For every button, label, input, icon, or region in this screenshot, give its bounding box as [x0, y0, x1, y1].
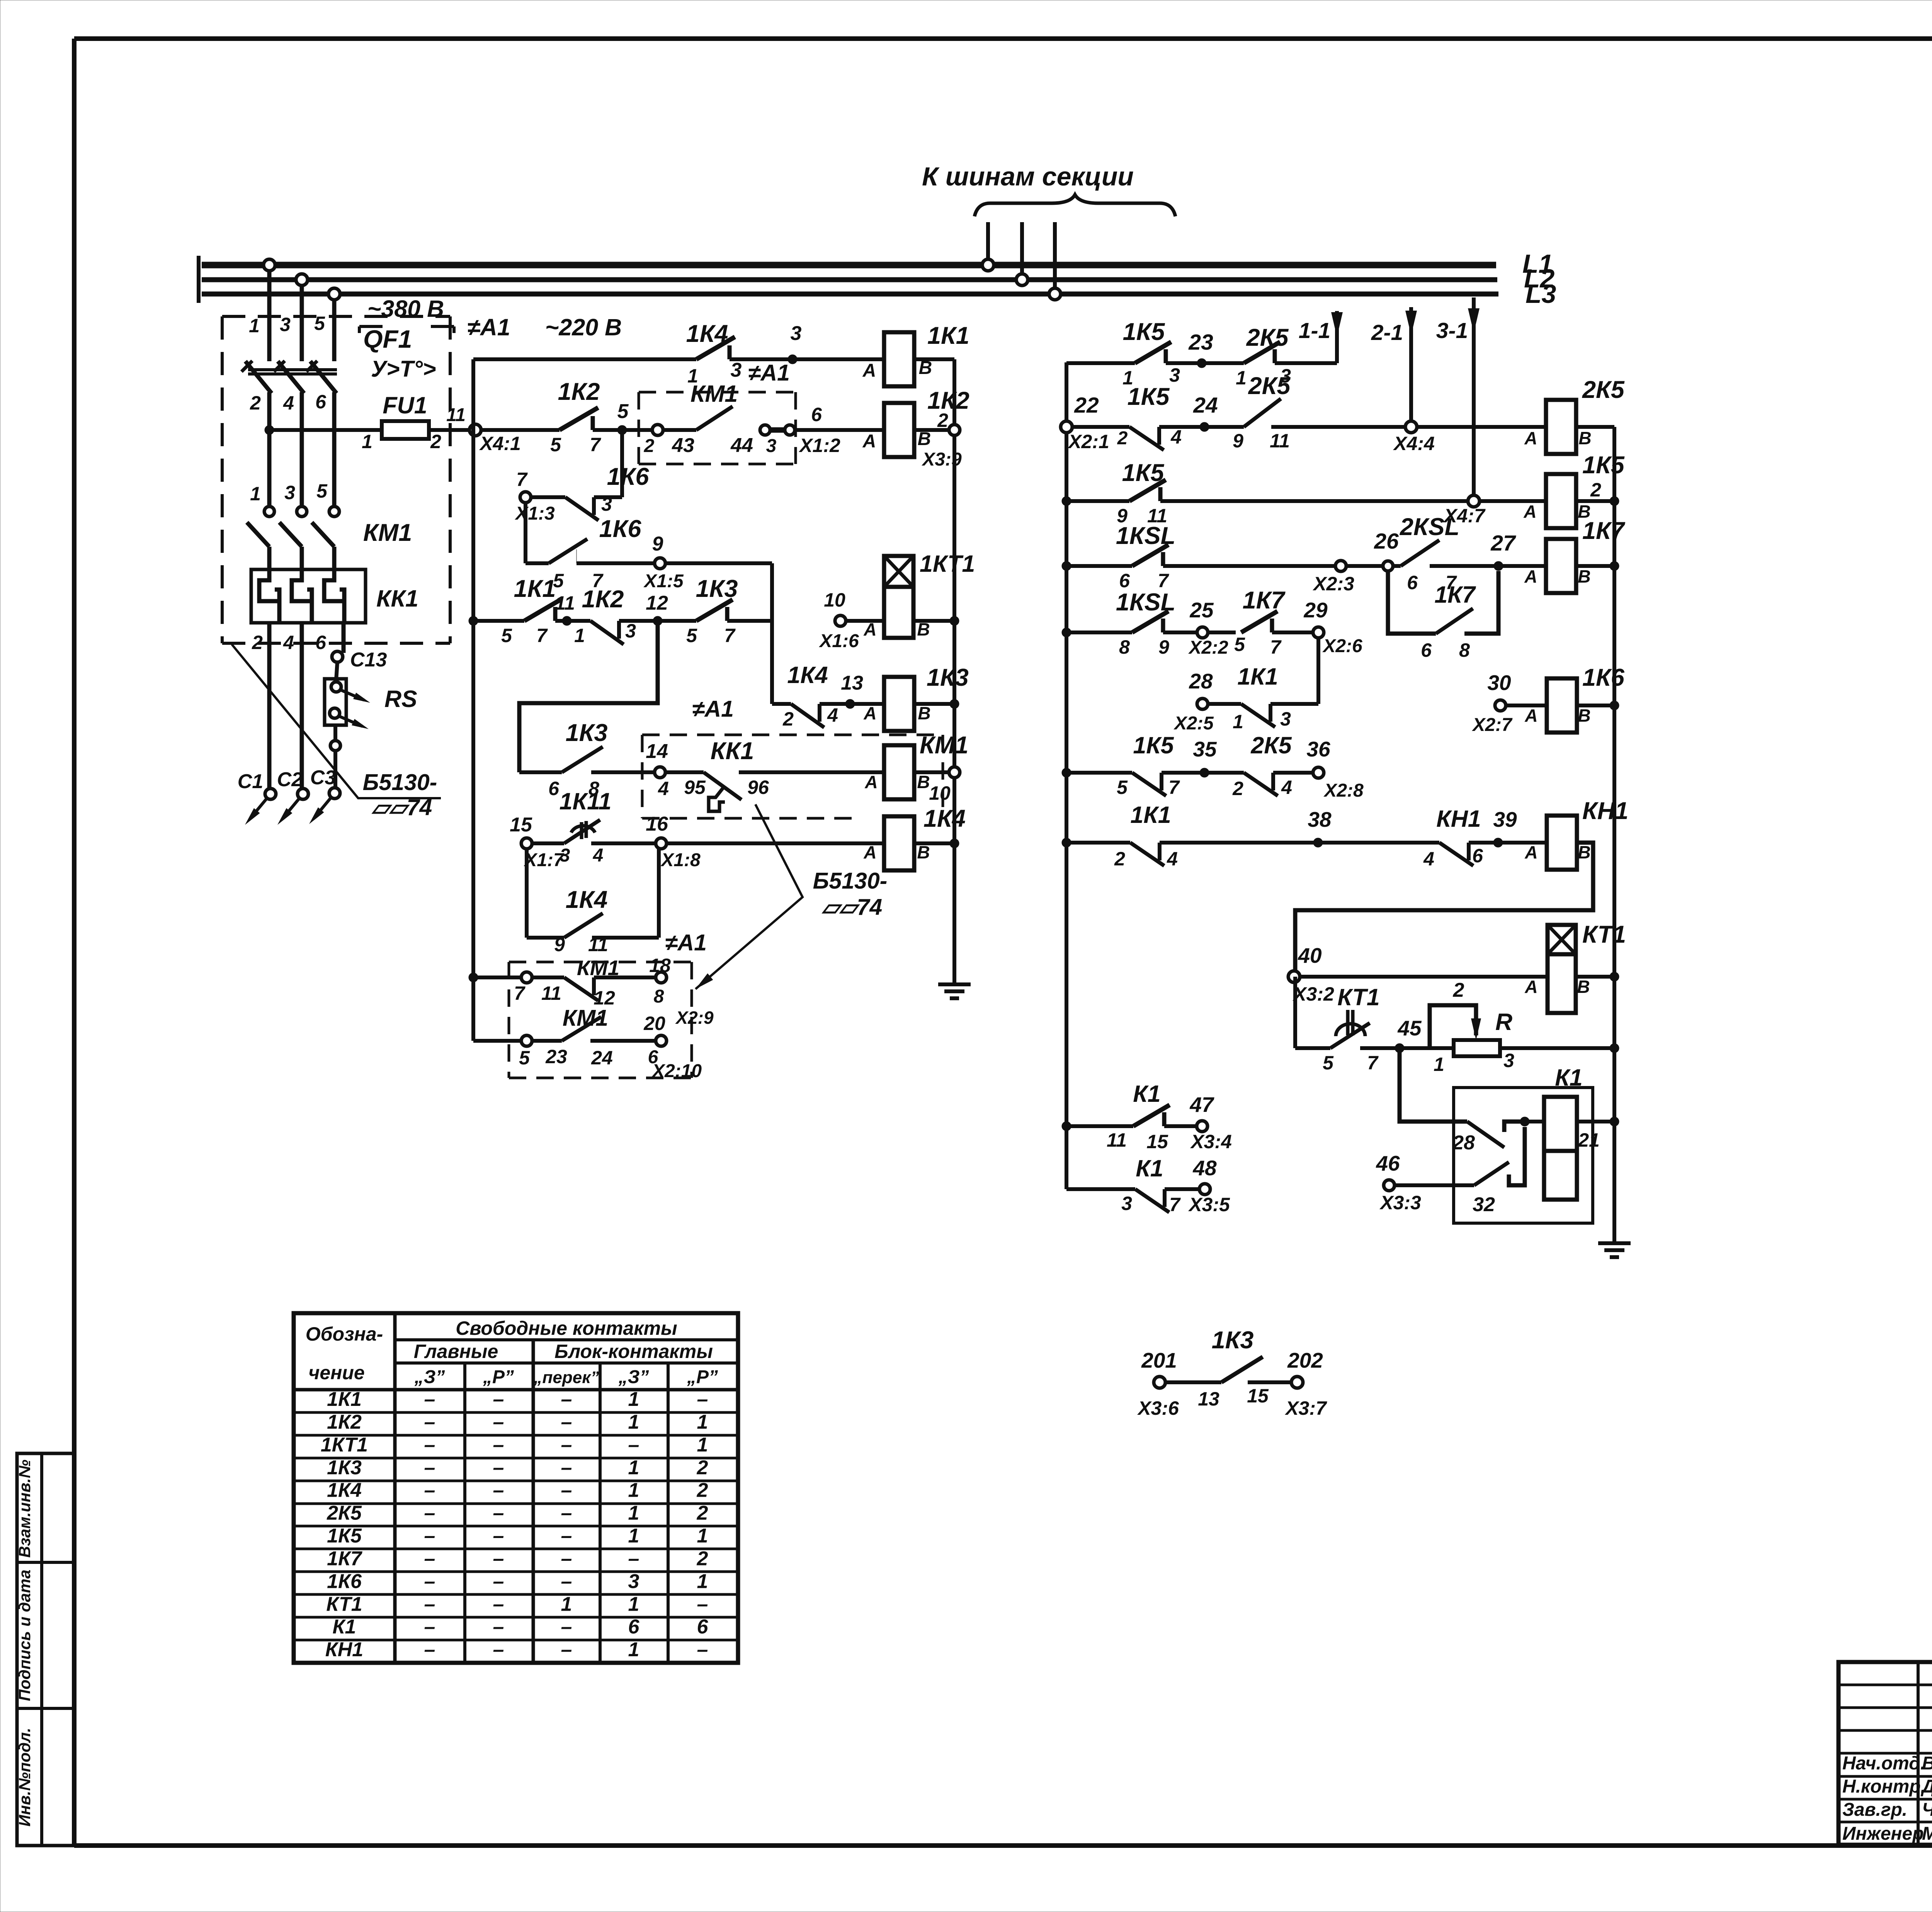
svg-text:1: 1 — [561, 1593, 572, 1615]
svg-text:3: 3 — [1280, 708, 1291, 730]
svg-text:7: 7 — [1158, 570, 1169, 591]
svg-text:Блок-контакты: Блок-контакты — [554, 1341, 713, 1362]
svg-text:7: 7 — [514, 982, 526, 1004]
node 26 row D — [1374, 529, 1399, 571]
svg-text:–: – — [493, 1388, 504, 1411]
terminal node 16 row7 — [591, 813, 884, 870]
node 24 row B — [1193, 393, 1218, 432]
wire row 2 left — [481, 428, 560, 432]
svg-text:39: 39 — [1493, 807, 1517, 831]
terminal 30 X2:7 — [1471, 671, 1547, 735]
svg-text:–: – — [424, 1547, 435, 1570]
svg-text:▱▱74: ▱▱74 — [371, 795, 432, 820]
wire row B to X4:4 — [1270, 427, 1546, 452]
svg-text:1К7: 1К7 — [1582, 517, 1626, 544]
svg-text:43: 43 — [672, 434, 694, 457]
svg-text:2К5: 2К5 — [327, 1502, 362, 1525]
wire row 4 left — [469, 616, 524, 625]
node 5 row2 — [593, 400, 658, 435]
terminal 47 X3:4 — [1164, 1093, 1232, 1152]
svg-text:11: 11 — [1270, 430, 1290, 452]
svg-text:–: – — [561, 1479, 572, 1502]
relay coil 1К2 — [862, 387, 969, 470]
svg-text:3: 3 — [628, 1570, 639, 1592]
svg-text:2КSL: 2КSL — [1400, 513, 1459, 540]
svg-text:1: 1 — [628, 1388, 639, 1411]
svg-text:Свободные контакты: Свободные контакты — [456, 1317, 677, 1339]
terminal X2:3 — [1312, 561, 1354, 595]
wire row C to X4:7 — [1160, 499, 1546, 503]
table rows contact counts — [321, 1388, 709, 1661]
bypass contact 1К7 under row D — [1388, 571, 1498, 661]
wire row D right — [1498, 566, 1546, 586]
svg-text:6: 6 — [315, 391, 327, 413]
contact К1 node 32 — [1473, 1127, 1525, 1216]
svg-text:1К6: 1К6 — [607, 463, 650, 490]
svg-text:13: 13 — [841, 672, 863, 694]
svg-text:≠А1: ≠А1 — [665, 930, 707, 955]
svg-text:Взам.инв.№: Взам.инв.№ — [15, 1460, 34, 1558]
svg-text:5: 5 — [1234, 634, 1245, 655]
wire row47 left — [1062, 1122, 1133, 1131]
svg-text:1: 1 — [628, 1593, 639, 1615]
time relay coil 1КТ1 — [884, 551, 975, 639]
svg-text:4: 4 — [593, 845, 604, 866]
svg-text:11: 11 — [1107, 1129, 1127, 1151]
svg-text:8: 8 — [654, 986, 664, 1007]
svg-text:–: – — [493, 1570, 504, 1592]
svg-text:Х2:1: Х2:1 — [1067, 431, 1109, 452]
svg-text:1: 1 — [1434, 1054, 1444, 1075]
svg-text:–: – — [561, 1525, 572, 1547]
svg-text:Х1:7: Х1:7 — [523, 850, 565, 870]
table subheaders З Р перек З Р — [414, 1367, 718, 1387]
node 35 row35 — [1193, 737, 1217, 777]
svg-text:≠А1: ≠А1 — [748, 360, 790, 386]
svg-text:–: – — [628, 1547, 639, 1570]
node 12 row4 — [646, 592, 696, 625]
svg-text:Давлианидзе: Давлианидзе — [1920, 1776, 1932, 1797]
svg-text:К1: К1 — [1555, 1064, 1582, 1091]
svg-text:–: – — [424, 1570, 435, 1592]
svg-text:3: 3 — [1503, 1050, 1514, 1071]
svg-text:У>Т°>: У>Т°> — [371, 356, 436, 382]
svg-text:1К5: 1К5 — [1128, 383, 1170, 410]
wire row 1 left — [473, 357, 696, 361]
svg-text:А: А — [1524, 705, 1537, 726]
svg-text:4: 4 — [283, 632, 294, 653]
svg-text:8: 8 — [1459, 639, 1470, 661]
svg-text:КМ1: КМ1 — [920, 732, 968, 759]
svg-text:Магулария: Магулария — [1922, 1824, 1932, 1844]
svg-text:44: 44 — [730, 434, 753, 457]
svg-text:–: – — [424, 1411, 435, 1433]
svg-text:1К2: 1К2 — [927, 387, 969, 414]
contact 1К1 break row 28 — [1208, 663, 1318, 733]
wire row8 left — [469, 973, 521, 982]
svg-text:Х3:9: Х3:9 — [921, 449, 962, 470]
contact 2КSL row D — [1393, 513, 1498, 593]
svg-text:–: – — [493, 1457, 504, 1479]
svg-text:1К1: 1К1 — [1130, 802, 1171, 828]
svg-text:1-1: 1-1 — [1299, 318, 1330, 343]
svg-text:А: А — [862, 431, 876, 452]
svg-text:15: 15 — [1247, 1385, 1269, 1407]
middle ladder return rail — [1612, 427, 1616, 1242]
svg-text:Б5130-: Б5130- — [363, 770, 437, 795]
svg-text:1К7: 1К7 — [1434, 581, 1476, 608]
terminal node 15 row7 — [510, 814, 565, 870]
bus L3 — [199, 279, 1556, 309]
svg-text:Х2:7: Х2:7 — [1471, 715, 1513, 735]
svg-text:202: 202 — [1287, 1348, 1323, 1372]
label ~380 В — [359, 296, 454, 333]
terminal 29 X2:6 — [1272, 598, 1362, 656]
terminal X4:1 node 11 — [446, 405, 521, 454]
svg-text:1КSL: 1КSL — [1116, 589, 1175, 616]
contact 2К5 row B — [1204, 372, 1291, 452]
svg-text:9: 9 — [652, 533, 663, 555]
terminal C3 — [309, 766, 340, 824]
svg-text:Инженер: Инженер — [1842, 1824, 1924, 1844]
terminal C13 — [332, 649, 387, 680]
svg-text:С1: С1 — [238, 770, 263, 793]
svg-text:Х2:6: Х2:6 — [1322, 636, 1362, 656]
contact 2К5 break row35 — [1204, 732, 1313, 799]
svg-text:1К4: 1К4 — [923, 805, 966, 832]
svg-text:7: 7 — [1270, 636, 1282, 658]
svg-text:1: 1 — [574, 625, 585, 646]
svg-text:1К1: 1К1 — [514, 575, 556, 602]
svg-text:–: – — [493, 1502, 504, 1525]
svg-text:Обозна-: Обозна- — [306, 1323, 383, 1345]
terminal 46 X3:3 — [1376, 1151, 1474, 1213]
svg-text:„З”: „З” — [618, 1367, 649, 1387]
wire row E left — [1062, 628, 1132, 637]
svg-text:КН1: КН1 — [325, 1638, 363, 1661]
svg-text:А: А — [863, 842, 876, 862]
bus stub to section 1 — [982, 222, 994, 271]
svg-text:13: 13 — [1198, 1388, 1219, 1410]
svg-text:–: – — [697, 1388, 708, 1411]
svg-text:2: 2 — [252, 632, 263, 653]
svg-text:–: – — [628, 1434, 639, 1456]
svg-text:Х2:9: Х2:9 — [675, 1008, 714, 1028]
svg-text:–: – — [493, 1616, 504, 1638]
svg-text:3: 3 — [284, 482, 295, 503]
svg-text:Подпись и дата: Подпись и дата — [15, 1570, 34, 1701]
svg-text:1К1: 1К1 — [927, 322, 969, 349]
relay coil 1К5 — [1546, 452, 1625, 528]
svg-text:23: 23 — [1188, 330, 1213, 355]
svg-text:А: А — [1524, 566, 1537, 586]
circuit breaker QF1 dashed outline — [222, 316, 450, 643]
node 45 — [1395, 1016, 1422, 1053]
svg-text:„Р”: „Р” — [483, 1367, 514, 1387]
feeder 1-1 from bus — [1299, 311, 1343, 363]
terminal X4:7 — [1443, 495, 1536, 527]
left ladder supply rail — [471, 359, 475, 1041]
svg-text:2: 2 — [1114, 848, 1125, 870]
svg-text:24: 24 — [591, 1047, 613, 1069]
svg-text:–: – — [697, 1638, 708, 1661]
svg-text:1К3: 1К3 — [327, 1457, 362, 1479]
svg-text:КТ1: КТ1 — [1582, 921, 1626, 948]
table header Обозначение — [306, 1323, 383, 1383]
relay coil 2К5 — [1524, 376, 1624, 454]
brace under К шинам секции — [975, 195, 1175, 216]
svg-text:1: 1 — [697, 1411, 708, 1433]
svg-text:6: 6 — [1421, 639, 1432, 661]
svg-text:Х2:2: Х2:2 — [1188, 637, 1228, 658]
svg-text:2: 2 — [1453, 979, 1464, 1001]
svg-text:2К5: 2К5 — [1248, 372, 1291, 399]
svg-text:2: 2 — [937, 410, 948, 431]
svg-text:–: – — [493, 1525, 504, 1547]
contact 1К2 row2 — [550, 378, 601, 455]
middle ladder supply rail — [1065, 362, 1068, 1189]
svg-text:6: 6 — [1472, 845, 1483, 867]
free contacts table — [294, 1313, 738, 1663]
relay coil КМ1 — [884, 732, 968, 804]
contact 1К5 row A — [1122, 318, 1180, 389]
relay coil КН1 — [1547, 797, 1628, 870]
svg-text:Х2:8: Х2:8 — [1323, 780, 1364, 801]
svg-text:4: 4 — [1281, 777, 1292, 798]
svg-text:40: 40 — [1298, 943, 1322, 967]
svg-text:2-1: 2-1 — [1371, 320, 1403, 345]
wire row C left — [1062, 496, 1129, 506]
svg-text:6: 6 — [697, 1616, 709, 1638]
resistor RS — [325, 679, 417, 788]
block Б5130 dashed outline row6 — [642, 735, 943, 818]
svg-text:2: 2 — [1232, 778, 1243, 799]
svg-text:–: – — [493, 1479, 504, 1502]
bus stub to section 2 — [1016, 222, 1028, 286]
relay coil 1К7 — [1546, 517, 1626, 593]
contact 1К6 break row3 — [531, 430, 649, 520]
svg-text:3: 3 — [766, 436, 777, 456]
svg-text:1К5: 1К5 — [1133, 732, 1174, 758]
svg-text:Х2:5: Х2:5 — [1173, 713, 1214, 734]
wire row D middle — [1163, 564, 1388, 568]
wires below KK1 — [269, 623, 344, 789]
pole 1 wire below fuse tap — [267, 430, 272, 460]
svg-text:1К4: 1К4 — [787, 662, 828, 688]
callout Б5130-□□74 left — [232, 644, 441, 820]
svg-text:5: 5 — [617, 400, 629, 423]
contact 1К5 break row35 — [1117, 732, 1204, 798]
node 38 — [1308, 807, 1332, 847]
svg-text:12: 12 — [646, 592, 668, 614]
relay coil 1К3 — [884, 664, 969, 731]
svg-text:„З”: „З” — [414, 1367, 445, 1387]
svg-text:L3: L3 — [1526, 279, 1556, 309]
svg-text:1К7: 1К7 — [327, 1547, 362, 1570]
terminal C1 — [238, 770, 276, 825]
bus L2 — [199, 264, 1555, 293]
feeder 2-1 from bus — [1371, 307, 1417, 427]
svg-text:чение: чение — [308, 1362, 365, 1383]
svg-text:R: R — [1495, 1009, 1512, 1035]
svg-text:1К1: 1К1 — [327, 1388, 362, 1411]
svg-text:Чаруева: Чаруева — [1922, 1800, 1932, 1820]
svg-text:–: – — [424, 1388, 435, 1411]
svg-text:Х3:3: Х3:3 — [1379, 1192, 1421, 1213]
svg-text:Х4:4: Х4:4 — [1393, 433, 1435, 454]
svg-text:23: 23 — [545, 1046, 567, 1067]
svg-text:А: А — [1524, 977, 1537, 997]
tap from bus L2 to QF1 pole 2 — [296, 274, 308, 361]
svg-text:20: 20 — [643, 1013, 665, 1034]
svg-text:Зав.гр.: Зав.гр. — [1842, 1800, 1907, 1820]
svg-text:1: 1 — [1236, 367, 1247, 389]
node 13 row5 — [841, 672, 884, 723]
svg-text:–: – — [424, 1479, 435, 1502]
contact 1К6 make row3b — [526, 515, 641, 591]
svg-text:11: 11 — [446, 405, 466, 425]
svg-text:2: 2 — [1590, 479, 1601, 501]
contact К1 break row48 — [1121, 1155, 1199, 1215]
callout Б5130-□□74 right — [696, 804, 887, 989]
wire node45 down to К1 — [1400, 1048, 1467, 1122]
fuse FU1 — [265, 392, 471, 452]
svg-text:–: – — [493, 1411, 504, 1433]
svg-text:18: 18 — [649, 955, 671, 976]
svg-text:–: – — [424, 1638, 435, 1661]
svg-text:КК1: КК1 — [711, 738, 754, 765]
svg-text:Х1:8: Х1:8 — [660, 850, 701, 870]
svg-text:1: 1 — [628, 1457, 639, 1479]
svg-text:А: А — [1524, 428, 1537, 448]
terminal X4:4 — [1393, 421, 1435, 454]
svg-text:15: 15 — [1146, 1131, 1168, 1152]
svg-text:1: 1 — [628, 1411, 639, 1433]
circuit breaker QF1 — [241, 313, 436, 460]
wire row4 right — [727, 619, 772, 623]
svg-text:Н.контр.: Н.контр. — [1842, 1776, 1926, 1797]
svg-text:38: 38 — [1308, 807, 1332, 831]
svg-text:А: А — [863, 703, 876, 723]
contact КМ1 auxiliary row2 — [644, 381, 822, 457]
svg-text:3: 3 — [1169, 364, 1180, 386]
svg-text:2: 2 — [430, 431, 441, 452]
svg-text:45: 45 — [1397, 1016, 1422, 1040]
svg-text:А: А — [1524, 842, 1537, 862]
svg-text:1: 1 — [697, 1434, 708, 1456]
svg-text:С3: С3 — [310, 766, 336, 789]
resistor R with tap — [1400, 979, 1619, 1075]
svg-text:22: 22 — [1074, 393, 1099, 418]
wire КН1 to КТ1 row — [1295, 843, 1593, 977]
wire row A right — [1275, 361, 1337, 365]
svg-text:КН1: КН1 — [1436, 806, 1481, 832]
svg-text:2: 2 — [697, 1479, 708, 1502]
svg-text:1: 1 — [1233, 711, 1243, 733]
svg-text:5: 5 — [686, 625, 697, 646]
svg-text:46: 46 — [1376, 1151, 1400, 1175]
contact 2К5 row A — [1236, 324, 1291, 389]
svg-text:14: 14 — [646, 740, 668, 763]
svg-text:~220 В: ~220 В — [545, 314, 622, 340]
ground at left ladder right rail — [938, 981, 971, 998]
svg-text:5: 5 — [519, 1047, 530, 1069]
svg-text:21: 21 — [1578, 1129, 1600, 1151]
svg-text:6: 6 — [811, 404, 822, 425]
svg-text:„перек”: „перек” — [534, 1368, 599, 1387]
svg-text:1К4: 1К4 — [686, 320, 728, 347]
svg-text:–: – — [697, 1593, 708, 1615]
terminal X1:5 node 9 — [577, 533, 772, 591]
contact 1КSL row E — [1116, 589, 1175, 658]
svg-text:10: 10 — [824, 589, 845, 611]
svg-text:Вишневский: Вишневский — [1922, 1753, 1932, 1774]
svg-text:–: – — [424, 1616, 435, 1638]
svg-text:32: 32 — [1473, 1193, 1495, 1216]
svg-text:Х2:3: Х2:3 — [1312, 573, 1354, 595]
svg-text:Х3:4: Х3:4 — [1190, 1131, 1232, 1152]
relay К1 coil — [1544, 1064, 1600, 1200]
svg-text:К1: К1 — [333, 1616, 356, 1638]
svg-text:–: – — [424, 1457, 435, 1479]
svg-text:7: 7 — [724, 625, 736, 646]
svg-text:–: – — [493, 1434, 504, 1456]
svg-text:1К3: 1К3 — [566, 719, 608, 746]
svg-text:К шинам секции: К шинам секции — [922, 162, 1134, 191]
terminal 40 X3:2 — [1288, 943, 1548, 1005]
svg-text:–: – — [424, 1525, 435, 1547]
svg-text:–: – — [561, 1411, 572, 1433]
title block frame — [1838, 1662, 1932, 1845]
terminal X1:3 node 7 — [514, 469, 555, 524]
svg-text:1: 1 — [250, 483, 261, 505]
svg-text:„Р”: „Р” — [687, 1367, 718, 1387]
svg-text:2: 2 — [782, 708, 794, 730]
relay К1 outline box — [1454, 1088, 1593, 1223]
svg-text:2: 2 — [1117, 428, 1128, 449]
wire 29 down to 28 row — [1316, 638, 1320, 704]
svg-text:Х2:10: Х2:10 — [651, 1061, 702, 1081]
svg-text:35: 35 — [1193, 737, 1217, 761]
svg-text:1К4: 1К4 — [327, 1479, 362, 1502]
svg-text:30: 30 — [1487, 671, 1511, 695]
svg-text:7: 7 — [1367, 1052, 1379, 1074]
wire row48 left — [1066, 1187, 1135, 1191]
svg-text:25: 25 — [1189, 598, 1214, 622]
bus L1 — [199, 249, 1553, 279]
contact К1 row47 — [1107, 1081, 1170, 1152]
svg-text:1КSL: 1КSL — [1116, 522, 1175, 549]
svg-text:1: 1 — [628, 1525, 639, 1547]
svg-text:–: – — [561, 1570, 572, 1592]
contact 1К4 break row5 — [782, 662, 850, 730]
wire 1К6 branch down — [524, 503, 527, 563]
svg-text:7: 7 — [1169, 1194, 1181, 1215]
wire link row3 to row5 — [770, 563, 774, 704]
terminal 25 X2:2 row E — [1163, 598, 1236, 658]
svg-text:1: 1 — [697, 1525, 708, 1547]
svg-text:КМ1: КМ1 — [363, 519, 412, 546]
svg-text:5: 5 — [316, 480, 328, 502]
svg-text:27: 27 — [1490, 531, 1516, 556]
contact КМ1 make row9 — [519, 1005, 656, 1069]
svg-text:С13: С13 — [350, 649, 387, 671]
svg-text:1: 1 — [628, 1502, 639, 1525]
svg-text:16: 16 — [646, 813, 668, 835]
time relay coil КТ1 — [1548, 921, 1626, 1013]
terminal node 20 row9 — [643, 1013, 702, 1081]
svg-text:6: 6 — [628, 1616, 640, 1638]
